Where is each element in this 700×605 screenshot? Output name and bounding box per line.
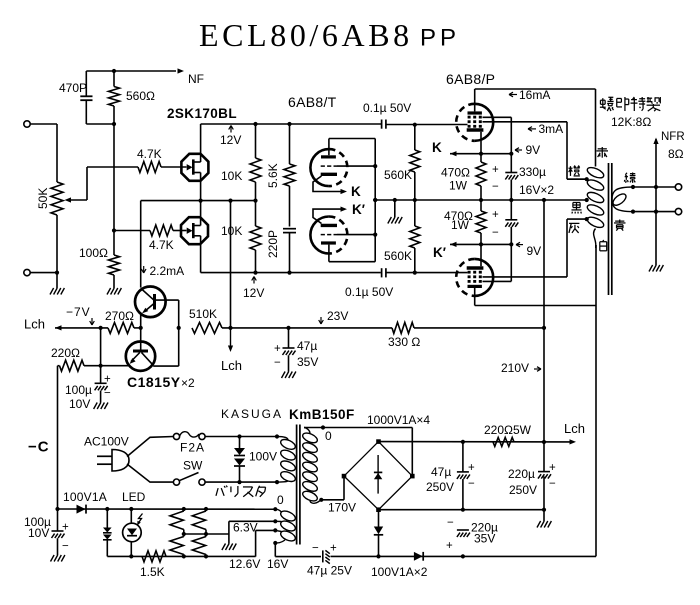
label K' pentode [433,245,446,260]
capacitor 47u 35V [274,326,318,372]
label 9V upper [515,143,540,157]
svg-text:1W: 1W [451,218,470,232]
svg-text:10K: 10K [221,169,242,183]
svg-text:+: + [104,374,111,386]
resistor 470ohm 1W upper [441,154,486,200]
label gray [569,223,579,233]
input terminal J2 [24,269,59,275]
svg-text:9V: 9V [526,143,541,157]
svg-text:+: + [492,164,499,176]
label OPT maker [600,97,660,111]
label LED [122,490,146,504]
svg-text:×2: ×2 [181,376,195,390]
capacitor 470P [59,71,93,124]
svg-text:+: + [62,522,69,534]
svg-text:−: − [104,388,111,400]
wire Q4 collector loop [153,328,179,366]
label 6AB8/T [288,94,337,110]
diode bridge minus [374,510,383,557]
wire heater bottom rail [107,554,255,558]
label 5.6K [266,163,280,188]
label varistor katakana [216,486,266,497]
diode 100V1Ax2 [371,552,428,579]
wire switch to primary [205,480,279,484]
svg-text:LED: LED [122,490,146,504]
tube V1 6AB8 triode upper [310,149,347,186]
wire Q3 collector from rail [140,201,142,288]
svg-text:2SK170BL: 2SK170BL [167,106,237,121]
svg-text:2.2mA: 2.2mA [150,264,185,278]
wire V3 plate to OPT [475,89,596,111]
wire HV top 0 [304,425,412,443]
svg-text:100Ω: 100Ω [79,246,108,260]
wire 16V tap [273,541,321,557]
svg-text:220Ω5W: 220Ω5W [484,423,532,437]
wire NFR takeoff [653,138,658,260]
svg-text:47µ: 47µ [297,339,317,353]
svg-text:0.1µ 50V: 0.1µ 50V [345,285,393,299]
transformer OPT primary winding [586,165,605,245]
svg-text:+: + [330,543,337,555]
label 0 heater [277,493,284,507]
label 210V [501,361,541,375]
svg-text:100V1A×2: 100V1A×2 [371,565,428,579]
label black [571,202,581,213]
label Lch down arrow [221,328,242,373]
wire secondary top [631,185,675,189]
transformer PT core [297,425,300,545]
wire signal down to Lch [228,201,232,330]
svg-text:4.7K: 4.7K [149,238,174,252]
wire V4 plate to OPT white [475,288,596,306]
wire fuse to primary [205,434,279,438]
resistor 330ohm [388,322,546,349]
transformer OPT secondary winding [611,187,633,212]
fuse F2A [173,432,205,455]
wire V3 g3 tie [483,117,512,153]
svg-text:9V: 9V [527,244,542,258]
wire B+ 210V vertical [543,200,545,521]
wire 220ohm to Q4 emitter [99,364,129,368]
label 330u 16Vx2 [519,165,554,197]
svg-text:NF: NF [188,72,204,86]
label 16mA [509,88,550,102]
diode 100V1A [63,490,107,514]
wire grid upper [386,123,468,127]
capacitor 0.1u upper [363,101,411,129]
ground cathode rail [388,200,402,224]
wire 12.6V tap [256,528,278,556]
svg-text:560Ω: 560Ω [126,89,155,103]
resistor 270ohm [105,309,141,333]
label C1815Yx2 [127,374,195,390]
ground NFR [649,259,663,272]
capacitor 100u 10V lower [24,509,69,555]
svg-text:16V×2: 16V×2 [519,183,554,197]
resistor 560ohm [109,71,156,124]
potentiometer 50K [51,124,87,273]
svg-text:270Ω: 270Ω [105,309,134,323]
svg-text:220P: 220P [266,230,280,258]
svg-text:12V: 12V [220,133,241,147]
svg-text:Lch: Lch [221,358,242,373]
wire 12V top rail [201,122,382,126]
svg-text:12K:8Ω: 12K:8Ω [611,115,651,129]
wire K node upper [450,151,513,156]
label 1000V1Ax4 [367,413,430,427]
resistor 510K [189,307,289,333]
resistor 560K lower [384,200,420,273]
svg-text:23V: 23V [327,309,348,323]
label 16V [267,557,288,571]
svg-text:0.1µ 50V: 0.1µ 50V [363,101,411,115]
label 8ohm [668,147,684,161]
svg-text:6.3V: 6.3V [233,521,258,535]
wire V4 cathode [480,244,482,266]
wire Q3 base right [156,300,181,330]
resistor 4.7K lower [114,225,187,252]
wire minus rail [376,508,544,512]
svg-text:470Ω: 470Ω [441,166,470,180]
label 220P [266,230,280,258]
resistor 560K upper [384,125,420,200]
wire JFET node rail [141,199,258,203]
resistor 470ohm 1W lower [444,200,486,244]
capacitor 0.1u lower [345,268,393,299]
title PP [420,25,460,52]
heater element 2b [192,534,206,556]
svg-text:−: − [312,543,319,555]
svg-text:+: + [492,209,499,221]
svg-text:F2A: F2A [180,441,205,455]
feedback divider vertical [112,124,116,255]
capacitor 220u 35V [446,517,498,559]
wire V1 grid [337,165,375,167]
transistor Q4 C1815 lower [126,342,155,371]
svg-text:250V: 250V [426,480,454,494]
wire OPT primary top red [595,89,597,167]
wire -C vertical [57,366,59,509]
wire V3 g2 to orange tap [483,122,589,181]
heater element 1b [170,534,184,556]
svg-text:100V1A: 100V1A [63,490,107,504]
svg-text:PP: PP [420,25,460,52]
capacitor 220u 250V [508,440,556,512]
wire Q1 source to node [199,173,203,203]
svg-text:47µ: 47µ [431,465,451,479]
svg-text:SW: SW [183,459,203,473]
svg-text:100V: 100V [249,450,277,464]
svg-text:10V: 10V [28,526,49,540]
resistor 1.5K [140,551,166,579]
label 2.2mA [141,264,184,278]
svg-text:C1815Y: C1815Y [127,374,181,390]
wire to 330ohm [289,327,393,329]
bridge rectifier [342,439,415,512]
svg-text:−: − [62,541,69,553]
wire AC to bridge right [411,428,413,477]
output terminal 8ohm top [675,184,681,190]
label yellow [614,220,626,231]
svg-text:220µ: 220µ [508,467,535,481]
svg-text:16V: 16V [267,557,288,571]
wire cathode rail 0V [373,198,589,202]
svg-text:100µ: 100µ [65,383,92,397]
label 100V varistor [249,450,277,464]
heater element 1a [170,509,184,534]
wire heater 0 rail [55,507,277,511]
label KASUGA KmB150F [221,407,355,422]
ground 100ohm [107,288,121,295]
wire V2 cathode K' arrow [313,207,347,224]
wire Q3 emitter down [139,314,143,342]
svg-text:330µ: 330µ [519,165,546,179]
resistor 220ohm [51,346,101,371]
resistor 220ohm 5W [484,423,532,446]
label red [597,147,609,158]
svg-text:−: − [468,478,475,490]
wire Q2 drain to node [200,201,202,226]
label 12.6V [229,557,260,571]
label white [600,240,607,251]
svg-text:47µ 25V: 47µ 25V [307,564,352,578]
svg-text:K′: K′ [433,245,446,260]
ground heater [222,534,236,550]
wire bias rail to OPT white [376,245,596,559]
wire V2 grid [337,234,375,236]
svg-text:KmB150F: KmB150F [289,407,355,422]
wire OPT white lead [595,245,597,248]
svg-text:470P: 470P [59,81,87,95]
svg-text:10V: 10V [69,397,90,411]
svg-text:−7V: −7V [66,305,91,319]
svg-text:170V: 170V [328,501,356,515]
wire V3 cathode [480,132,482,154]
wire triode bus vertical [373,139,377,262]
resistor 10K lower [221,201,261,273]
resistor 5.6K [284,124,295,227]
wire HV bottom 170V [319,476,356,514]
svg-text:−: − [492,181,499,193]
label 12V bottom [243,277,264,301]
svg-text:−: − [492,227,499,239]
svg-text:AC100V: AC100V [84,435,129,449]
LED indicator [123,509,143,556]
resistor 100ohm [79,246,120,288]
wire V1 plate [329,139,375,156]
wire grid lower [386,271,468,275]
svg-text:35V: 35V [297,355,318,369]
svg-text:−: − [549,478,556,490]
svg-text:0: 0 [277,493,284,507]
label -7V [66,305,94,325]
capacitor 47u 250V [426,442,475,510]
transformer PT primary winding [277,437,297,484]
wire V4 g3 tie [483,244,512,281]
wire V2 plate [329,245,375,262]
ground pot [50,273,64,295]
svg-text:NFR: NFR [661,131,685,143]
input terminal J1 [24,121,57,127]
svg-text:4.7K: 4.7K [137,147,162,161]
svg-text:210V: 210V [501,361,529,375]
svg-text:12.6V: 12.6V [229,557,260,571]
resistor 4.7K upper [87,147,187,173]
label 23V [319,309,349,324]
svg-text:−: − [447,517,454,529]
wire Lch to 270ohm [55,326,108,330]
svg-text:−C: −C [28,439,50,456]
svg-text:K: K [351,184,361,199]
wire heater mid rail 6.3V [182,519,278,536]
wire bridge plus out [379,439,577,444]
wire V1 cathode K arrow [313,176,347,194]
wire Q1 drain [200,124,202,162]
svg-text:K: K [432,140,442,155]
wire cathode 12V bottom rail [201,271,381,275]
tube V3 6AB8 pentode upper [456,104,493,141]
svg-text:K′: K′ [352,202,365,217]
label green [624,173,635,183]
svg-text:50K: 50K [36,188,50,209]
capacitor 330u upper [492,154,518,200]
switch SW [173,459,205,486]
label 12K:8ohm [611,115,651,129]
svg-text:5.6K: 5.6K [266,163,280,188]
label K triode [351,184,361,199]
label NFR [661,131,685,143]
svg-text:220Ω: 220Ω [51,346,80,360]
transistor Q3 C1815 upper [135,287,166,318]
svg-text:560K: 560K [384,249,412,263]
svg-text:560K: 560K [384,168,412,182]
label -C [28,439,50,456]
svg-text:+: + [549,462,556,474]
tube V2 6AB8 triode lower [310,217,347,254]
svg-text:KASUGA: KASUGA [221,407,283,421]
wire 470P-560 bottom [86,122,116,126]
svg-text:330 Ω: 330 Ω [388,335,420,349]
title ECL80/6AB8 [199,17,413,53]
varistor 100V [234,437,245,483]
label K pentode [432,140,442,155]
svg-text:0: 0 [325,429,332,443]
svg-text:10K: 10K [221,224,242,238]
label 50K [36,188,50,209]
label 9V lower [516,242,541,258]
svg-text:8Ω: 8Ω [668,147,684,161]
svg-text:6AB8/T: 6AB8/T [288,94,337,110]
wire K' node lower [450,242,513,247]
svg-text:Lch: Lch [564,421,585,436]
heater element 2a [192,509,206,534]
svg-text:35V: 35V [474,532,495,546]
capacitor 100u 10V upper [65,328,111,411]
label 6AB8/P [446,71,495,87]
plug AC [97,437,173,483]
wire secondary bottom [631,210,675,214]
svg-text:510K: 510K [189,307,217,321]
label 6.3V [233,521,258,535]
label Lch input arrow [24,317,62,332]
transformer PT heater secondary [275,509,296,543]
tube V4 6AB8 pentode lower [456,259,493,296]
label 12V top [220,126,241,148]
svg-text:−: − [274,357,281,369]
svg-text:12V: 12V [243,286,264,300]
resistor 10K upper [221,124,261,201]
ground 47u 35V [282,372,296,379]
wire Q2 source [200,236,202,273]
label 2SK170BL [167,106,237,121]
label Lch psu [564,421,585,436]
svg-text:ECL80/6AB8: ECL80/6AB8 [199,17,413,53]
svg-text:1.5K: 1.5K [140,565,165,579]
wire V4 g2 to gray tap [483,217,589,277]
label 3mA [528,122,563,136]
output terminal 8ohm bottom [675,208,681,214]
svg-text:+: + [446,540,453,552]
svg-text:+: + [468,462,475,474]
svg-text:Lch: Lch [24,317,45,332]
ground 100u upper [94,403,108,410]
label orange [569,165,580,175]
capacitor 220P [283,229,296,273]
wire NF top rail [86,68,184,73]
zener pair bias [103,509,112,556]
capacitor 330u lower [492,200,518,244]
svg-text:6AB8/P: 6AB8/P [446,71,495,87]
svg-text:1W: 1W [449,179,468,193]
node NF label [188,72,204,86]
ground 100u lower [51,555,65,562]
ground B+ line [537,521,551,528]
transformer PT HV secondary [301,428,321,504]
svg-text:+: + [274,343,281,355]
transistor Q1 2SK170 upper [181,154,208,181]
svg-text:250V: 250V [509,483,537,497]
wire orange tap [567,178,587,180]
svg-text:1000V1A×4: 1000V1A×4 [367,413,430,427]
transformer OPT core [609,163,612,295]
label K' triode [352,202,365,217]
label AC100V [84,435,129,449]
capacitor 47u 25V [307,543,379,578]
svg-text:3mA: 3mA [539,122,564,136]
svg-text:16mA: 16mA [519,88,550,102]
transistor Q2 2SK170 lower [181,217,208,244]
